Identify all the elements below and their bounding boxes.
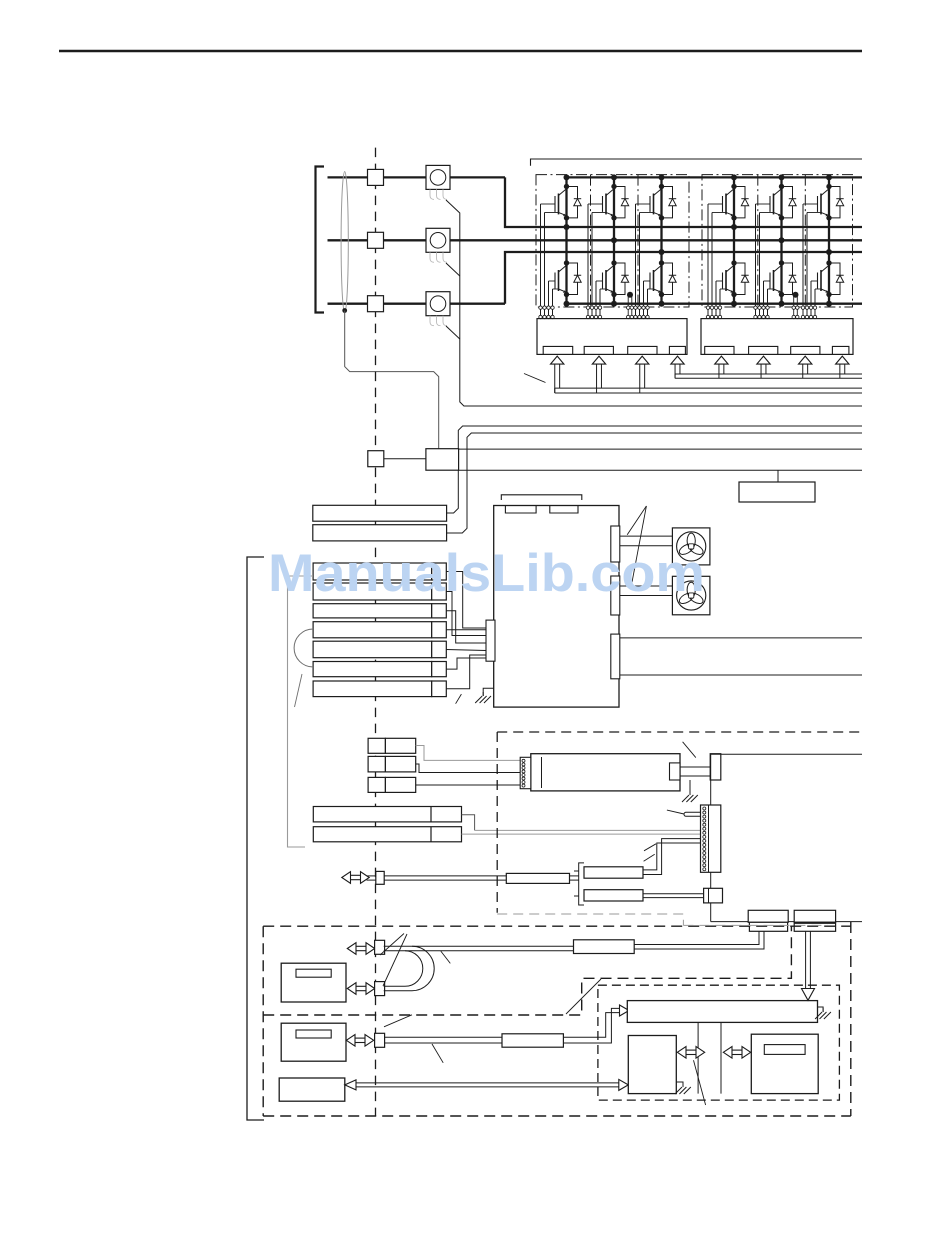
CN2 wire [416, 764, 521, 773]
gate supply arrow A6 [757, 356, 770, 364]
CT sense wire down-right [446, 200, 862, 406]
fan leader lines [627, 506, 646, 535]
OP2 cable to main box [563, 1013, 619, 1038]
FL1 double arrow [342, 872, 369, 884]
upper bus bar B1 [313, 505, 447, 521]
connector pair CN2 [368, 756, 385, 772]
inverter assembly bracket [531, 159, 863, 166]
gray inner outline [288, 576, 314, 847]
OP2 double arrow [346, 1035, 373, 1047]
svg-text:ManualsLib.com: ManualsLib.com [268, 544, 705, 603]
connector bar E [313, 641, 432, 658]
relay unit box [739, 482, 815, 502]
input arrow to sub unit [619, 1079, 629, 1090]
gate supply arrow A2 [592, 356, 605, 364]
gate driver board PCB2 [701, 319, 853, 355]
remote filter RF1 [574, 940, 635, 954]
connector bar C [313, 604, 432, 618]
IGBT half-bridge leg Q6 [801, 177, 843, 318]
noise filter NF1 [584, 867, 643, 878]
cable loop semicircle [294, 629, 313, 667]
IGBT half-bridge leg Q1 [539, 177, 581, 318]
reactor ground [689, 780, 691, 795]
FL1 wires [384, 875, 506, 877]
board input tab (left) [486, 620, 495, 661]
upper bus bar B2 [313, 525, 447, 541]
connector bar F [313, 662, 432, 677]
connector pair CN3 [368, 777, 385, 792]
cooling fan FAN2 [672, 576, 710, 615]
operator panel box OP2 [281, 1023, 346, 1061]
leader lines [380, 934, 404, 956]
gate supply arrow A7 [799, 356, 812, 364]
operator panel box OP3 [279, 1078, 345, 1101]
junction connector box [426, 449, 459, 471]
control bus line a [459, 405, 461, 407]
board top connector slot 1 [505, 506, 536, 514]
IGBT module M1 outline (dash-dot) [536, 175, 689, 307]
IGBT module M2 outline (dash-dot) [702, 175, 853, 307]
sub unit box U1 [628, 1036, 676, 1094]
cooling fan FAN1 [672, 528, 710, 565]
connector pair CN1 [368, 738, 385, 753]
main unit inner dashed box [598, 985, 840, 1100]
filter bracket [579, 863, 584, 905]
power unit dashed outline [497, 731, 860, 733]
interface filter FL1 [506, 873, 569, 883]
OP3 left arrow [345, 1080, 356, 1090]
IGBT half-bridge leg Q2 [586, 177, 628, 318]
lower terminal tab [704, 888, 723, 903]
terminal square T2 [368, 232, 384, 248]
OP1 upper double arrow [347, 943, 374, 955]
OP1 upper connector [375, 940, 385, 954]
loop sense wire to junction connector [345, 311, 439, 450]
center dashed line (chassis) [375, 148, 377, 1116]
CN-M leader [667, 810, 684, 814]
operator panel box OP1 [281, 963, 346, 1002]
CN-M stub [686, 812, 701, 816]
output cable tab [611, 634, 620, 679]
vertical feed line [710, 753, 862, 755]
left outline bracket [247, 557, 264, 1120]
wire L1 drop to DC bus [505, 177, 862, 227]
phase wire L3 [328, 303, 506, 305]
OP2 cable [385, 1036, 502, 1038]
thermistor sensor M1 [627, 292, 633, 298]
gate supply wiring bus [554, 364, 556, 393]
noise filter NF2 [584, 890, 643, 901]
leader to gate wiring [524, 374, 546, 383]
bar harness wires to board [446, 572, 486, 629]
CPU bar ground [818, 1007, 824, 1012]
OP1 lower connector [375, 982, 385, 996]
gate supply arrow A1 [551, 356, 564, 364]
CN3 wire [416, 784, 521, 786]
T-bus from CPU bar [697, 1022, 699, 1093]
relay bar R1 [313, 807, 461, 822]
compartment divider dashed [263, 926, 791, 1015]
phase wire L2 [328, 239, 863, 241]
terminal connector TB1 [748, 910, 788, 922]
operator section outer dashed box [263, 925, 851, 927]
current transformer CT1 [426, 165, 450, 199]
DC+ top bus [567, 176, 863, 178]
gate supply arrow A3 [636, 356, 649, 364]
fan1 wires [620, 535, 673, 537]
FL1 left connector [376, 871, 384, 884]
current transformer CT3 [426, 292, 450, 326]
loop node dot [342, 308, 347, 313]
fan connector tab CN-F2 [611, 576, 620, 615]
junction square on dashed line [368, 451, 384, 467]
control board bracket [501, 495, 582, 500]
header rule [59, 50, 862, 53]
OP3 cable [356, 1082, 620, 1084]
fan2 wires [620, 585, 673, 587]
wire L3 rise to bus [505, 252, 862, 304]
leader across dashed edge [694, 1060, 706, 1105]
reactor input connector strip [520, 757, 531, 788]
gate driver board PCB1 [537, 319, 687, 355]
terminal row line [711, 921, 862, 923]
leg output junction dots [564, 224, 570, 230]
gate supply arrow A8 [836, 356, 849, 364]
IGBT half-bridge leg Q5 [754, 177, 796, 318]
bus double arrow right [723, 1047, 750, 1059]
CPU bus bar [627, 1001, 817, 1023]
OP2 filter RF2 [502, 1034, 563, 1047]
harness leader [456, 694, 462, 704]
NF2 wires to lower tab [643, 893, 704, 895]
connector bar G [313, 681, 432, 697]
remote cable upper [384, 945, 574, 947]
board top connector slot 2 [550, 506, 578, 514]
connector bar B [313, 583, 432, 600]
right terminal block top [710, 754, 721, 780]
leader at loop [295, 674, 303, 707]
CN1 wire (gray) [416, 746, 521, 761]
OP2 connector [375, 1033, 385, 1047]
control bus line b (from bar1) [447, 426, 862, 513]
gate supply arrow A5 [715, 356, 728, 364]
relay bar R2 [313, 827, 461, 842]
remote cable to TB1 [634, 931, 759, 944]
TB leader [566, 979, 601, 1014]
main connector strip CN-M [701, 805, 721, 872]
NF1 wires to CN-M [643, 843, 701, 870]
board ground [483, 688, 494, 696]
connector bar D [313, 622, 432, 638]
fan connector tab CN-F1 [611, 526, 620, 562]
3-phase input bracket [316, 167, 325, 313]
current transformer CT2 [426, 228, 450, 262]
output cable run [620, 637, 862, 639]
IGBT half-bridge leg Q3 [634, 177, 676, 318]
gray dashed continuation [683, 924, 828, 926]
control bus line c (from bar2) [447, 433, 862, 533]
display unit box U2 [751, 1034, 818, 1093]
IGBT half-bridge leg Q4 [706, 177, 748, 318]
input arrow to CPU bar [620, 1005, 630, 1016]
gate supply arrow A4 [671, 356, 684, 364]
wire leaders [644, 844, 656, 851]
terminal square T3 [368, 296, 384, 312]
down arrow from TB2 [805, 931, 807, 991]
phase wire L1 [328, 176, 506, 178]
OP1 lower double arrow [347, 983, 374, 995]
sensing loop ellipse [341, 172, 348, 313]
relay wires (gray) [462, 815, 475, 831]
connector bar A [313, 563, 432, 580]
DC- bottom bus [567, 303, 863, 305]
bus double arrow left [677, 1047, 704, 1059]
DC reactor box [531, 754, 680, 791]
OP2 leaders [384, 1015, 412, 1027]
loopback jumper [384, 951, 423, 987]
U1 ground [676, 1082, 683, 1087]
control board [494, 506, 619, 708]
terminal square T1 [368, 169, 384, 185]
reactor output tab [670, 763, 681, 780]
terminal connector TB2 [794, 910, 835, 922]
reactor leader [683, 742, 696, 758]
